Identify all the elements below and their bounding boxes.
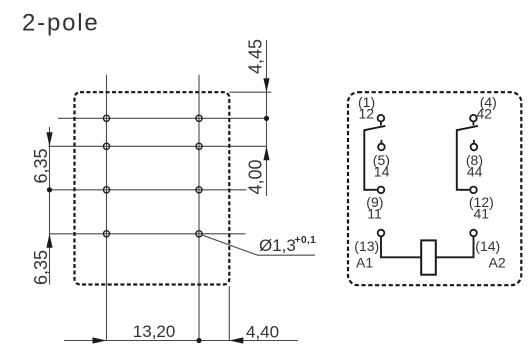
arrow down row2	[46, 132, 52, 146]
arrow up row4	[46, 234, 52, 248]
terminal circle A1	[378, 230, 385, 237]
terminal circle 42	[470, 115, 477, 122]
node dot row3	[47, 187, 52, 192]
wire A1 drop	[380, 236, 382, 257]
wire row 2	[48, 145, 266, 147]
svg-text:4,45: 4,45	[246, 39, 266, 74]
svg-text:(13): (13)	[354, 238, 379, 254]
dimension line right	[266, 40, 268, 196]
dimension line left	[49, 127, 51, 285]
hole r2c1	[103, 143, 109, 149]
hole r3c1	[103, 187, 109, 193]
arrow down 4,45	[263, 78, 269, 92]
pin stub 44	[473, 140, 475, 144]
arrow right col1	[93, 337, 107, 343]
outline drilling plan dashed box	[75, 92, 230, 284]
leader line diameter	[202, 235, 316, 255]
svg-text:+0,1: +0,1	[295, 234, 317, 246]
terminal circle 12	[378, 115, 385, 122]
wire extension right edge	[228, 286, 230, 341]
terminal circle 41	[470, 187, 477, 194]
svg-text:2-pole: 2-pole	[22, 10, 100, 37]
svg-text:11: 11	[367, 206, 382, 222]
svg-text:(14): (14)	[475, 238, 500, 254]
hole r3c2	[196, 187, 202, 193]
svg-text:42: 42	[476, 106, 492, 122]
hole r1c1	[103, 115, 109, 121]
svg-text:4,00: 4,00	[246, 159, 266, 194]
contact blade pole2	[457, 126, 478, 130]
wire bar pole1	[363, 129, 365, 190]
wire row 3	[48, 189, 246, 191]
svg-text:A2: A2	[489, 255, 506, 271]
wire A1 to coil	[380, 256, 421, 258]
terminal circle 14	[378, 144, 385, 151]
svg-text:41: 41	[474, 206, 490, 222]
svg-text:14: 14	[374, 163, 390, 179]
node column line 2	[198, 75, 200, 341]
node dot col2	[196, 338, 201, 343]
wire foot pole2	[456, 189, 470, 191]
svg-text:Ø1,3: Ø1,3	[259, 236, 296, 255]
wire bar pole2	[456, 129, 458, 190]
wire foot pole1	[363, 189, 377, 191]
dimension line bottom	[64, 340, 298, 342]
arrow up 4,00	[263, 146, 269, 160]
pin stub 12	[380, 122, 382, 126]
hole r4c2	[196, 231, 202, 237]
wire row 1	[58, 117, 267, 119]
hole r1c2	[196, 115, 202, 121]
svg-text:A1: A1	[356, 255, 373, 271]
node column line 1	[106, 75, 108, 341]
terminal circle 11	[378, 187, 385, 194]
coil K1	[421, 240, 436, 274]
wire A2 to coil	[436, 256, 475, 258]
hole r4c1	[103, 231, 109, 237]
svg-text:6,35: 6,35	[31, 148, 51, 183]
svg-text:4,40: 4,40	[246, 323, 279, 342]
contact blade pole1	[364, 126, 385, 130]
svg-text:12: 12	[359, 106, 375, 122]
outline schematic dashed box	[348, 92, 521, 285]
terminal circle 44	[471, 144, 478, 151]
arrow left right-edge	[229, 337, 243, 343]
wire row 4	[50, 233, 246, 235]
svg-text:13,20: 13,20	[133, 322, 176, 341]
pin stub 14	[380, 140, 382, 144]
hole r2c2	[196, 143, 202, 149]
svg-text:44: 44	[467, 163, 483, 179]
svg-text:6,35: 6,35	[31, 250, 51, 285]
wire extension top edge	[229, 91, 271, 93]
node dot row1	[264, 116, 269, 121]
terminal circle A2	[470, 230, 477, 237]
pin stub 42	[472, 122, 474, 126]
wire A2 drop	[473, 236, 475, 257]
